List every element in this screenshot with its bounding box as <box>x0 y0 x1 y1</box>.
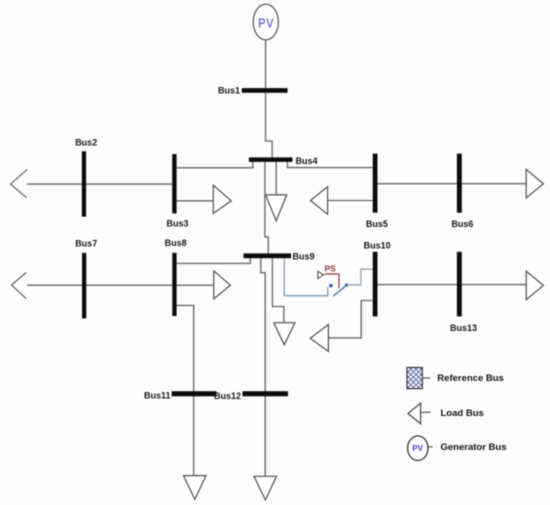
bus bar Bus13 <box>457 252 462 317</box>
svg-text:Bus2: Bus2 <box>75 138 97 148</box>
generator PV <box>253 4 278 40</box>
svg-text:Bus6: Bus6 <box>451 219 473 229</box>
svg-text:Reference Bus: Reference Bus <box>437 373 504 384</box>
PS callout bracket <box>325 274 339 288</box>
load arrow right of Bus8 <box>214 271 231 299</box>
bus bar Bus8 <box>172 253 176 316</box>
bus bar Bus9 <box>244 253 292 258</box>
wire Bus4 to down arrow <box>275 162 277 195</box>
wire Bus4 to Bus9 <box>265 162 268 253</box>
switch terminal dot right <box>345 283 349 287</box>
load arrow left of Bus5 <box>311 187 328 215</box>
wire Bus4 to Bus5 <box>288 162 373 168</box>
load arrow right end row2 <box>526 271 543 300</box>
legend load bus symbol <box>408 403 431 424</box>
svg-text:PS: PS <box>325 264 337 274</box>
wire left chevron row2 to load arrow <box>27 284 214 286</box>
svg-text:Load Bus: Load Bus <box>441 408 484 419</box>
load arrow below Bus4 <box>266 195 287 221</box>
svg-text:PV: PV <box>258 16 274 31</box>
load chevron row1 left <box>11 169 28 198</box>
svg-text:Bus8: Bus8 <box>165 238 187 248</box>
svg-text:Bus12: Bus12 <box>214 391 241 401</box>
wire Bus9 to Bus12 column <box>261 258 265 476</box>
svg-text:Bus3: Bus3 <box>167 219 189 229</box>
wire left chevron row1 to Bus3 <box>27 183 172 185</box>
svg-text:Generator Bus: Generator Bus <box>441 442 507 453</box>
load arrow bottom left <box>184 476 207 500</box>
wire PV to Bus1 <box>265 40 267 88</box>
bus bar Bus3 <box>172 154 176 213</box>
wire Bus9 to small down arrow <box>272 258 284 322</box>
wire Bus3 to load arrow <box>177 200 214 202</box>
wire Bus5 to right arrow row1 <box>378 183 526 185</box>
svg-text:Bus9: Bus9 <box>293 252 315 262</box>
load arrow bottom right <box>254 476 277 500</box>
bus bar Bus2 <box>82 151 86 216</box>
svg-text:Bus5: Bus5 <box>366 219 388 229</box>
svg-text:Bus4: Bus4 <box>296 156 318 166</box>
load arrow small below Bus9 <box>274 323 295 345</box>
wire Bus8 to Bus9 <box>177 258 251 263</box>
wire Bus1 to Bus4 <box>266 93 273 158</box>
PS pointer triangle <box>318 271 324 278</box>
wire blue Bus9 to switch <box>284 258 328 295</box>
svg-text:Bus10: Bus10 <box>364 240 391 250</box>
svg-text:Bus11: Bus11 <box>144 391 171 401</box>
load chevron row2 left <box>12 273 27 299</box>
svg-text:PV: PV <box>412 444 423 453</box>
bus bar Bus1 <box>242 88 288 93</box>
bus bar Bus10 <box>373 252 378 317</box>
switch terminal dot left <box>329 284 333 288</box>
bus bar Bus5 <box>373 154 378 213</box>
wire load arrow to Bus5 <box>328 200 373 202</box>
wire Bus3 to Bus4 <box>177 162 253 168</box>
bus bar Bus12 <box>243 391 289 396</box>
legend reference bus symbol <box>407 368 430 389</box>
load arrow below left of Bus10 <box>310 325 328 352</box>
wire Bus10 to left load arrow <box>329 301 373 338</box>
load arrow right of Bus3 <box>213 185 231 213</box>
bus bar Bus7 <box>82 253 86 319</box>
svg-text:Bus13: Bus13 <box>450 323 477 333</box>
wire Bus8 to Bus11 column <box>177 305 194 475</box>
legend generator bus symbol <box>408 436 433 461</box>
bus bar Bus11 <box>172 391 217 396</box>
svg-text:Bus1: Bus1 <box>218 86 240 96</box>
bus bar Bus4 <box>249 157 293 162</box>
wire Bus10 to right arrow row2 <box>378 284 526 286</box>
switch blade PS <box>333 286 345 296</box>
wire blue switch to Bus10 <box>347 269 373 285</box>
svg-text:Bus7: Bus7 <box>75 238 97 248</box>
bus bar Bus6 <box>457 154 462 213</box>
load arrow right end row1 <box>526 169 543 198</box>
